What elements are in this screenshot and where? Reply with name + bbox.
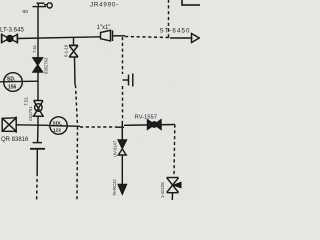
wire riser to lateral — [37, 116, 39, 125]
box at top right corner — [182, 0, 206, 5]
drain arrow filled down — [118, 140, 126, 148]
wire dashed signal to right — [125, 37, 170, 38]
spectacle blind / double bar on drop — [30, 143, 45, 149]
control valve with circle on riser — [33, 101, 45, 117]
valve FV-4242 (vertical open bowtie with actuator tail) — [167, 178, 181, 193]
capacitor-like signal break symbol — [123, 74, 133, 87]
off-page arrow ST-6450 — [170, 34, 199, 43]
wire riser mid — [37, 72, 39, 101]
wire drain drop solid — [121, 127, 123, 141]
wire riser below lateral — [37, 125, 39, 142]
wire horizontal main header — [17, 37, 100, 39]
wire stub from header to gate valve — [73, 37, 75, 45]
instrument circle SDL 122 — [48, 117, 80, 134]
wire dashed up to top edge — [168, 0, 170, 38]
node drain junction — [117, 121, 124, 134]
wire dashed signal continues down — [122, 86, 124, 121]
wire dashed lateral to drain junction — [80, 126, 117, 128]
wire drop dashed to bottom — [36, 173, 39, 200]
wire drop solid — [36, 149, 38, 173]
gate valve 6-1-19 (vertical open bowtie) — [69, 45, 78, 57]
wire lateral to relief valve — [124, 124, 175, 127]
wire reducer outlet — [113, 35, 126, 37]
wire below gate valve — [74, 57, 77, 85]
ball valve LT line — [2, 34, 18, 44]
instrument circle SD 156 — [0, 73, 38, 92]
drain arrow filled down bottom — [118, 185, 126, 195]
vent cap with circle at top of main riser — [33, 3, 53, 8]
wire dashed drop to junction — [76, 85, 78, 127]
wire funnel drop — [121, 155, 123, 185]
wire dashed drop right branch — [173, 125, 176, 177]
gate valve QR 83816 — [2, 117, 16, 133]
wire dashed drop to bottom edge — [76, 127, 79, 201]
wire lateral QR to SDL circle — [16, 124, 48, 127]
funnel open triangle — [118, 149, 126, 155]
wire dashed signal drop at x=122 — [122, 37, 124, 74]
wire below valve to bottom edge — [171, 193, 173, 200]
wire main riser upper — [37, 7, 39, 58]
filled valve on riser (check valve) — [33, 58, 43, 72]
reducer 1"x1" — [101, 30, 113, 41]
relief valve RV-1557 (filled) — [148, 120, 162, 130]
scan grain — [0, 0, 1, 1]
